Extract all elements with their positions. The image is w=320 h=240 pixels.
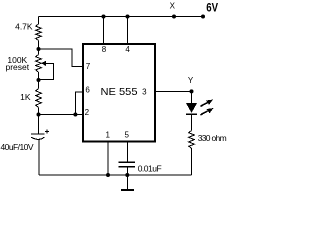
wire pin 3 output xyxy=(156,90,192,92)
svg-text:8: 8 xyxy=(102,45,107,54)
svg-text:4.7K: 4.7K xyxy=(15,22,33,32)
wire preset bottom to 1K top xyxy=(38,72,40,88)
svg-text:6V: 6V xyxy=(206,3,218,15)
resistor 4.7K xyxy=(36,24,42,41)
wire C1 bottom to ground rail xyxy=(38,140,40,175)
wire C2 to ground rail xyxy=(126,168,128,176)
wire pin 6 stub to pin2 wire xyxy=(75,92,82,115)
6V supply terminal dot xyxy=(201,15,205,19)
potentiometer 100K preset body xyxy=(36,55,42,73)
wire pin 1 to ground rail xyxy=(107,142,109,176)
wire pin 7 connection xyxy=(39,49,83,67)
svg-text:preset: preset xyxy=(5,62,29,72)
node junction dot pin4/rail xyxy=(126,15,130,19)
capacitor C2 0.01uF top plate xyxy=(118,161,135,163)
wire Y node to LED anode xyxy=(191,91,193,103)
wire left column top (rail to R1) xyxy=(38,17,40,25)
op-amp U1 IC NE 555 body xyxy=(83,44,155,142)
svg-text:6: 6 xyxy=(85,85,90,94)
capacitor C1 negative curved plate xyxy=(31,137,44,139)
wire top 6V supply rail xyxy=(39,16,204,18)
node junction dot pin1/rail xyxy=(106,173,110,177)
ground symbol bar xyxy=(121,189,134,191)
resistor 1K xyxy=(36,89,42,108)
node junction dot 1K/pin2/C1 xyxy=(37,113,41,117)
wire pin 4 to rail xyxy=(127,17,129,44)
wire pin 2 connection xyxy=(39,114,83,116)
node X junction dot on rail xyxy=(172,15,176,19)
wire R1 bottom to preset top xyxy=(38,41,40,55)
svg-text:330 ohm: 330 ohm xyxy=(198,133,227,143)
svg-text:5: 5 xyxy=(124,130,129,139)
LED light emission arrow upper xyxy=(201,103,208,107)
node Y junction dot xyxy=(190,89,194,93)
ground stub wire xyxy=(126,175,128,190)
capacitor C1 40uF/10V electrolytic positive plate xyxy=(31,133,44,135)
wire bottom ground rail xyxy=(39,174,192,176)
svg-text:0.01uF: 0.01uF xyxy=(138,164,162,174)
svg-text:Y: Y xyxy=(188,76,194,85)
svg-text:4: 4 xyxy=(125,45,130,54)
wire pin 8 to rail xyxy=(103,17,105,44)
svg-text:2: 2 xyxy=(85,108,90,117)
LED D1 triangle xyxy=(186,103,197,113)
potentiometer wiper arrowhead xyxy=(41,61,46,66)
wire 1K bottom to capacitor C1 xyxy=(38,108,40,134)
wire LED cathode to R3 xyxy=(191,115,193,130)
svg-text:3: 3 xyxy=(142,87,147,96)
node junction dot C2/rail xyxy=(125,173,129,177)
capacitor C1 plus sign xyxy=(45,129,49,133)
capacitor C2 bottom plate xyxy=(118,166,135,168)
node junction dot R1/preset/pin7 xyxy=(37,47,41,51)
svg-text:40uF/10V: 40uF/10V xyxy=(1,142,34,152)
resistor R3 330 ohm xyxy=(189,131,195,149)
wire R3 to ground rail xyxy=(191,148,193,175)
node junction dot pin8/rail xyxy=(102,15,106,19)
svg-text:1K: 1K xyxy=(20,92,31,102)
svg-text:X: X xyxy=(170,2,176,11)
svg-text:7: 7 xyxy=(86,62,91,71)
potentiometer wiper arm xyxy=(39,63,54,79)
wire pin 5 to C2 xyxy=(126,142,128,162)
LED light emission arrow lower xyxy=(201,111,208,115)
node junction dot preset/wiper/1K xyxy=(37,78,41,82)
svg-text:1: 1 xyxy=(105,130,110,139)
node junction dot pin6/pin2 xyxy=(73,113,77,117)
LED D1 cathode bar xyxy=(186,113,197,115)
svg-text:NE 555: NE 555 xyxy=(101,86,138,98)
